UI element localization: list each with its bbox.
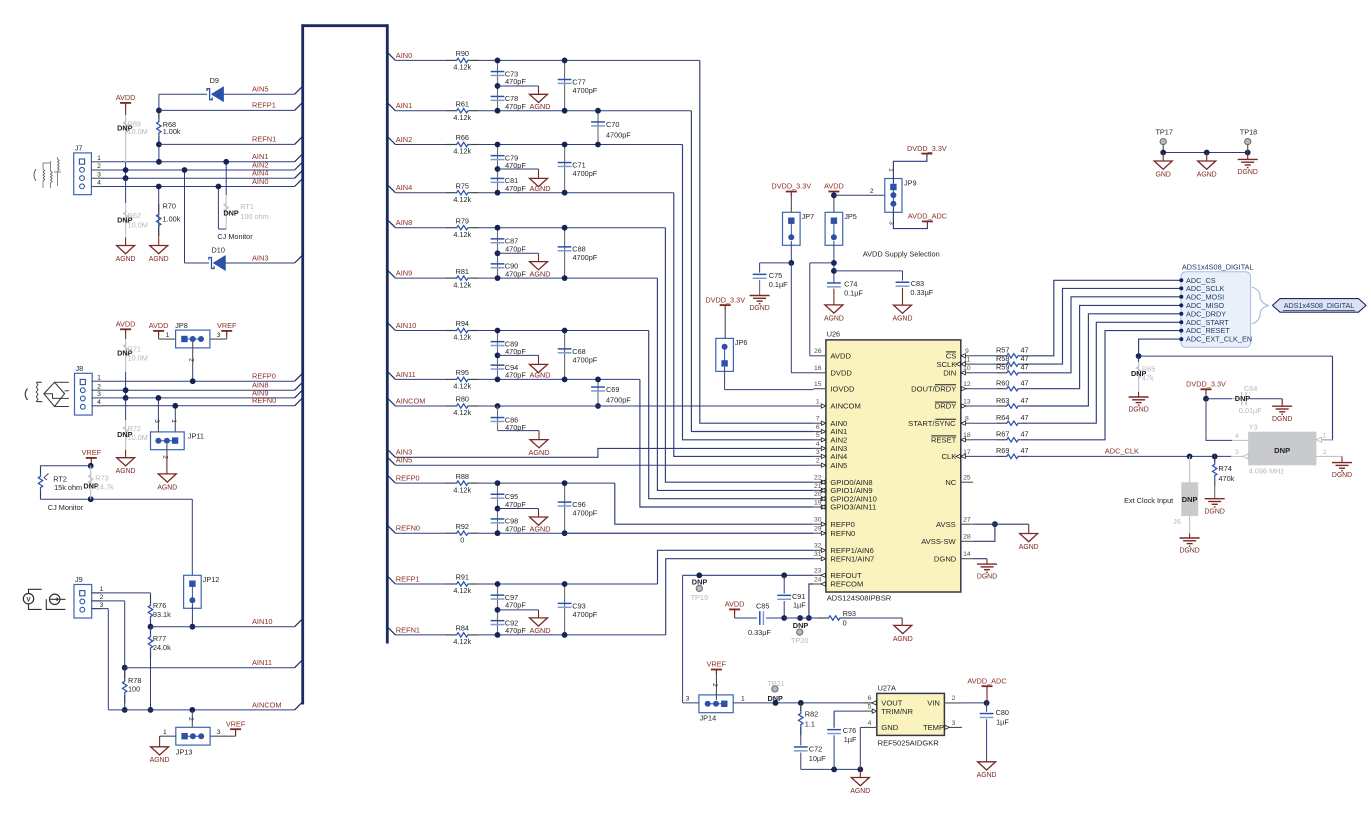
svg-text:3: 3 bbox=[100, 602, 104, 609]
svg-text:D10: D10 bbox=[212, 245, 225, 254]
svg-text:JP12: JP12 bbox=[203, 575, 220, 584]
svg-text:DGND: DGND bbox=[1179, 548, 1199, 555]
svg-text:24.0k: 24.0k bbox=[153, 643, 171, 652]
svg-text:4.12k: 4.12k bbox=[453, 147, 471, 156]
svg-text:22: 22 bbox=[814, 475, 822, 482]
svg-text:AVSS: AVSS bbox=[936, 520, 956, 529]
svg-text:DGND: DGND bbox=[1128, 407, 1148, 414]
svg-text:TRIM/NR: TRIM/NR bbox=[881, 707, 913, 716]
svg-text:R88: R88 bbox=[456, 472, 469, 481]
svg-text:470pF: 470pF bbox=[505, 500, 526, 509]
svg-text:470pF: 470pF bbox=[505, 77, 526, 86]
svg-text:AGND: AGND bbox=[893, 316, 913, 323]
svg-text:6: 6 bbox=[868, 695, 872, 702]
svg-text:1: 1 bbox=[816, 398, 820, 405]
svg-text:15k ohm: 15k ohm bbox=[54, 483, 82, 492]
svg-text:47: 47 bbox=[1021, 446, 1029, 455]
svg-text:R72: R72 bbox=[128, 424, 141, 433]
svg-text:C80: C80 bbox=[996, 708, 1009, 717]
svg-text:100 ohm: 100 ohm bbox=[240, 212, 268, 221]
svg-text:U26: U26 bbox=[827, 330, 840, 339]
svg-text:C85: C85 bbox=[756, 602, 769, 611]
svg-text:1.1: 1.1 bbox=[805, 720, 815, 729]
svg-text:AIN11: AIN11 bbox=[252, 658, 272, 667]
svg-text:4.12k: 4.12k bbox=[453, 230, 471, 239]
svg-text:TP18: TP18 bbox=[1240, 128, 1257, 137]
svg-text:REFN1/AIN7: REFN1/AIN7 bbox=[830, 554, 874, 563]
svg-text:AGND: AGND bbox=[529, 269, 550, 278]
svg-text:0.33µF: 0.33µF bbox=[748, 628, 771, 637]
svg-text:3: 3 bbox=[97, 391, 101, 398]
svg-text:C69: C69 bbox=[606, 385, 619, 394]
svg-text:AGND: AGND bbox=[150, 757, 170, 764]
svg-text:DGND: DGND bbox=[1272, 416, 1292, 423]
svg-text:30: 30 bbox=[814, 517, 822, 524]
svg-text:C70: C70 bbox=[606, 120, 619, 129]
svg-text:R59: R59 bbox=[996, 363, 1009, 372]
svg-text:DVDD: DVDD bbox=[830, 369, 852, 378]
svg-text:1.00k: 1.00k bbox=[163, 215, 181, 224]
svg-text:24: 24 bbox=[814, 576, 822, 583]
svg-text:R75: R75 bbox=[456, 181, 469, 190]
svg-text:DNP: DNP bbox=[793, 621, 809, 630]
svg-text:AGND: AGND bbox=[529, 525, 550, 534]
svg-text:2: 2 bbox=[711, 683, 718, 687]
svg-text:AIN10: AIN10 bbox=[396, 321, 417, 330]
svg-text:4.12k: 4.12k bbox=[453, 586, 471, 595]
svg-text:CJ Monitor: CJ Monitor bbox=[48, 503, 84, 512]
svg-text:R61: R61 bbox=[456, 99, 469, 108]
svg-text:AGND: AGND bbox=[1019, 544, 1039, 551]
svg-text:DGND: DGND bbox=[1205, 508, 1225, 515]
svg-text:16: 16 bbox=[814, 365, 822, 372]
svg-text:0: 0 bbox=[460, 535, 464, 544]
svg-text:R77: R77 bbox=[153, 634, 166, 643]
svg-text:14: 14 bbox=[963, 551, 971, 558]
svg-text:AGND: AGND bbox=[149, 256, 169, 263]
svg-text:R69: R69 bbox=[996, 446, 1009, 455]
svg-text:R67: R67 bbox=[996, 430, 1009, 439]
svg-text:C72: C72 bbox=[809, 745, 822, 754]
svg-text:470pF: 470pF bbox=[505, 371, 526, 380]
svg-text:RT1: RT1 bbox=[240, 202, 254, 211]
svg-text:2: 2 bbox=[100, 594, 104, 601]
svg-text:470pF: 470pF bbox=[505, 269, 526, 278]
svg-text:DGND: DGND bbox=[977, 574, 997, 581]
svg-text:100: 100 bbox=[128, 684, 140, 693]
svg-text:2: 2 bbox=[870, 188, 874, 195]
svg-text:3: 3 bbox=[686, 696, 690, 703]
svg-text:0: 0 bbox=[843, 619, 847, 628]
svg-text:1: 1 bbox=[97, 155, 101, 162]
svg-text:10.0M: 10.0M bbox=[128, 127, 148, 136]
svg-text:REFP0: REFP0 bbox=[396, 474, 420, 483]
svg-text:DVDD_3.3V: DVDD_3.3V bbox=[705, 295, 745, 304]
svg-text:AIN3: AIN3 bbox=[252, 253, 268, 262]
svg-text:1: 1 bbox=[163, 729, 167, 736]
svg-text:93.1k: 93.1k bbox=[153, 610, 171, 619]
svg-text:DVDD_3.3V: DVDD_3.3V bbox=[907, 144, 947, 153]
svg-text:4.12k: 4.12k bbox=[453, 280, 471, 289]
svg-text:JP11: JP11 bbox=[188, 432, 204, 441]
svg-text:AIN8: AIN8 bbox=[396, 218, 412, 227]
svg-text:R65: R65 bbox=[1142, 365, 1155, 374]
svg-text:4700pF: 4700pF bbox=[606, 395, 631, 404]
svg-text:4.12k: 4.12k bbox=[453, 333, 471, 342]
svg-text:AIN10: AIN10 bbox=[252, 617, 273, 626]
svg-text:R66: R66 bbox=[456, 133, 469, 142]
svg-text:GND: GND bbox=[1156, 171, 1171, 178]
svg-text:AVDD_ADC: AVDD_ADC bbox=[967, 676, 1006, 685]
svg-text:ADS1x4S08_DIGITAL: ADS1x4S08_DIGITAL bbox=[1182, 262, 1254, 271]
svg-text:4: 4 bbox=[97, 399, 101, 406]
svg-text:RESET: RESET bbox=[931, 436, 957, 445]
svg-text:R71: R71 bbox=[128, 344, 141, 353]
svg-text:SCLK: SCLK bbox=[936, 360, 956, 369]
svg-text:REFP0: REFP0 bbox=[830, 520, 854, 529]
svg-text:3: 3 bbox=[217, 332, 221, 339]
svg-text:JP8: JP8 bbox=[175, 321, 188, 330]
svg-text:47: 47 bbox=[1021, 379, 1029, 388]
svg-text:DGND: DGND bbox=[934, 554, 957, 563]
svg-text:47k: 47k bbox=[1142, 374, 1154, 383]
svg-text:4700pF: 4700pF bbox=[573, 253, 598, 262]
svg-text:R73: R73 bbox=[95, 474, 108, 483]
svg-text:R62: R62 bbox=[128, 211, 141, 220]
svg-text:26: 26 bbox=[814, 348, 822, 355]
svg-text:TP19: TP19 bbox=[691, 593, 708, 602]
svg-text:JP9: JP9 bbox=[904, 179, 917, 188]
svg-text:470pF: 470pF bbox=[505, 601, 526, 610]
svg-text:ADS1x4S08_DIGITAL: ADS1x4S08_DIGITAL bbox=[1284, 301, 1355, 310]
svg-text:DNP: DNP bbox=[767, 694, 783, 703]
svg-text:470k: 470k bbox=[1219, 474, 1235, 483]
svg-text:4.12k: 4.12k bbox=[453, 408, 471, 417]
svg-text:AIN4: AIN4 bbox=[830, 452, 847, 461]
svg-text:R94: R94 bbox=[456, 319, 469, 328]
svg-text:TEMP: TEMP bbox=[923, 723, 944, 732]
svg-text:4.12k: 4.12k bbox=[453, 195, 471, 204]
svg-text:470pF: 470pF bbox=[505, 626, 526, 635]
svg-text:AVDD: AVDD bbox=[116, 93, 136, 102]
svg-text:R74: R74 bbox=[1219, 464, 1232, 473]
svg-text:47: 47 bbox=[1021, 396, 1029, 405]
svg-text:AGND: AGND bbox=[157, 484, 177, 491]
svg-text:R58: R58 bbox=[996, 354, 1009, 363]
svg-text:C75: C75 bbox=[769, 271, 782, 280]
svg-text:7: 7 bbox=[816, 416, 820, 423]
svg-text:0.1µF: 0.1µF bbox=[769, 280, 788, 289]
svg-text:15: 15 bbox=[814, 381, 822, 388]
svg-text:TP21: TP21 bbox=[767, 679, 784, 688]
svg-text:AIN4: AIN4 bbox=[396, 183, 412, 192]
svg-text:AIN2: AIN2 bbox=[396, 135, 412, 144]
svg-text:1: 1 bbox=[170, 419, 177, 423]
svg-text:4.12k: 4.12k bbox=[453, 382, 471, 391]
svg-text:Ext Clock Input: Ext Clock Input bbox=[1124, 496, 1173, 505]
svg-text:AINCOM: AINCOM bbox=[396, 396, 426, 405]
svg-text:3: 3 bbox=[1235, 449, 1239, 456]
svg-text:470pF: 470pF bbox=[505, 244, 526, 253]
svg-text:DGND: DGND bbox=[1238, 169, 1258, 176]
svg-text:12: 12 bbox=[963, 381, 971, 388]
svg-text:R63: R63 bbox=[996, 396, 1009, 405]
svg-text:1: 1 bbox=[741, 696, 745, 703]
svg-text:2: 2 bbox=[97, 163, 101, 170]
svg-text:AIN0: AIN0 bbox=[252, 177, 268, 186]
svg-text:5: 5 bbox=[816, 432, 820, 439]
svg-text:JP7: JP7 bbox=[802, 212, 815, 221]
svg-text:VREF: VREF bbox=[82, 448, 102, 457]
svg-text:DRDY: DRDY bbox=[935, 402, 957, 411]
svg-text:27: 27 bbox=[963, 517, 971, 524]
svg-text:DNP: DNP bbox=[223, 208, 239, 217]
svg-text:AIN9: AIN9 bbox=[396, 269, 412, 278]
svg-text:AIN5: AIN5 bbox=[830, 461, 847, 470]
svg-text:AGND: AGND bbox=[824, 315, 844, 322]
svg-text:4.12k: 4.12k bbox=[453, 637, 471, 646]
svg-text:J8: J8 bbox=[76, 364, 84, 373]
svg-text:ADC_CLK: ADC_CLK bbox=[1105, 446, 1139, 455]
svg-text:AVDD_ADC: AVDD_ADC bbox=[908, 212, 947, 221]
svg-text:AGND: AGND bbox=[529, 102, 550, 111]
svg-text:DGND: DGND bbox=[749, 305, 769, 312]
svg-text:GND: GND bbox=[881, 723, 898, 732]
svg-text:29: 29 bbox=[814, 526, 822, 533]
svg-text:4700pF: 4700pF bbox=[573, 86, 598, 95]
svg-text:C84: C84 bbox=[1244, 384, 1257, 393]
svg-text:4.12k: 4.12k bbox=[453, 113, 471, 122]
svg-text:4700pF: 4700pF bbox=[573, 355, 598, 364]
svg-text:13: 13 bbox=[963, 398, 971, 405]
svg-text:AIN5: AIN5 bbox=[396, 456, 412, 465]
svg-text:DNP: DNP bbox=[1235, 394, 1251, 403]
svg-text:4700pF: 4700pF bbox=[573, 610, 598, 619]
svg-text:10.0M: 10.0M bbox=[128, 433, 148, 442]
svg-text:1: 1 bbox=[1323, 432, 1327, 439]
svg-text:AGND: AGND bbox=[893, 636, 913, 643]
svg-text:R95: R95 bbox=[456, 368, 469, 377]
svg-text:R76: R76 bbox=[153, 601, 166, 610]
svg-text:DNP: DNP bbox=[1274, 446, 1290, 455]
svg-text:1.00k: 1.00k bbox=[163, 127, 181, 136]
svg-text:470pF: 470pF bbox=[505, 525, 526, 534]
svg-text:C83: C83 bbox=[911, 279, 924, 288]
svg-text:DOUT/DRDY: DOUT/DRDY bbox=[911, 384, 956, 393]
svg-text:JP5: JP5 bbox=[844, 212, 857, 221]
svg-text:JP13: JP13 bbox=[176, 748, 193, 757]
svg-text:3: 3 bbox=[888, 221, 895, 225]
svg-text:AVDD: AVDD bbox=[824, 182, 844, 191]
svg-text:TP17: TP17 bbox=[1155, 128, 1172, 137]
svg-text:28: 28 bbox=[963, 534, 971, 541]
svg-text:21: 21 bbox=[814, 483, 822, 490]
svg-text:J6: J6 bbox=[1173, 517, 1181, 526]
svg-text:REFN1: REFN1 bbox=[252, 135, 276, 144]
svg-text:31: 31 bbox=[814, 551, 822, 558]
svg-text:25: 25 bbox=[963, 475, 971, 482]
svg-text:AIN0: AIN0 bbox=[396, 51, 412, 60]
svg-text:VREF: VREF bbox=[226, 719, 246, 728]
svg-text:R91: R91 bbox=[456, 573, 469, 582]
svg-text:AINCOM: AINCOM bbox=[252, 700, 282, 709]
svg-text:1µF: 1µF bbox=[793, 601, 806, 610]
svg-text:32: 32 bbox=[814, 543, 822, 550]
svg-text:ADC_EXT_CLK_EN: ADC_EXT_CLK_EN bbox=[1186, 335, 1252, 344]
svg-text:R84: R84 bbox=[456, 624, 469, 633]
svg-text:3: 3 bbox=[952, 720, 956, 727]
svg-text:DNP: DNP bbox=[1182, 495, 1198, 504]
svg-text:14.7k: 14.7k bbox=[96, 483, 114, 492]
svg-text:AGND: AGND bbox=[529, 184, 550, 193]
svg-text:4.096 MHz: 4.096 MHz bbox=[1249, 466, 1285, 475]
svg-text:3: 3 bbox=[153, 419, 160, 423]
svg-text:C76: C76 bbox=[843, 726, 856, 735]
svg-text:JP6: JP6 bbox=[735, 338, 748, 347]
svg-text:CJ Monitor: CJ Monitor bbox=[217, 232, 253, 241]
svg-text:1µF: 1µF bbox=[844, 735, 857, 744]
svg-text:3: 3 bbox=[97, 171, 101, 178]
svg-text:1: 1 bbox=[100, 586, 104, 593]
svg-text:TP20: TP20 bbox=[791, 636, 808, 645]
svg-text:R93: R93 bbox=[843, 609, 856, 618]
svg-text:AIN1: AIN1 bbox=[396, 101, 412, 110]
svg-text:4.12k: 4.12k bbox=[453, 63, 471, 72]
svg-text:REFCOM: REFCOM bbox=[830, 580, 863, 589]
svg-text:AGND: AGND bbox=[528, 448, 549, 457]
svg-text:20: 20 bbox=[814, 491, 822, 498]
svg-text:2: 2 bbox=[187, 358, 194, 362]
svg-text:AIN5: AIN5 bbox=[252, 85, 268, 94]
svg-text:U27A: U27A bbox=[878, 684, 896, 693]
svg-text:47: 47 bbox=[1021, 413, 1029, 422]
svg-text:2: 2 bbox=[97, 383, 101, 390]
svg-text:0.33µF: 0.33µF bbox=[910, 288, 933, 297]
svg-text:REFP1: REFP1 bbox=[252, 101, 276, 110]
svg-text:DGND: DGND bbox=[1332, 472, 1352, 479]
svg-text:R64: R64 bbox=[996, 413, 1009, 422]
svg-text:47: 47 bbox=[1021, 430, 1029, 439]
svg-text:J9: J9 bbox=[75, 575, 83, 584]
svg-text:1: 1 bbox=[166, 332, 170, 339]
svg-text:JP14: JP14 bbox=[700, 714, 717, 723]
svg-text:AGND: AGND bbox=[529, 371, 550, 380]
svg-text:D9: D9 bbox=[210, 76, 219, 85]
svg-text:VREF: VREF bbox=[217, 321, 237, 330]
svg-text:AGND: AGND bbox=[116, 256, 136, 263]
svg-text:2: 2 bbox=[1323, 449, 1327, 456]
svg-text:AGND: AGND bbox=[1197, 171, 1217, 178]
svg-text:REFOUT: REFOUT bbox=[830, 571, 862, 580]
svg-text:AGND: AGND bbox=[850, 788, 870, 795]
svg-text:REFN0: REFN0 bbox=[396, 524, 420, 533]
svg-text:AVDD: AVDD bbox=[116, 320, 136, 329]
svg-text:START/SYNC: START/SYNC bbox=[908, 419, 956, 428]
svg-text:23: 23 bbox=[814, 568, 822, 575]
svg-text:GPIO3/AIN11: GPIO3/AIN11 bbox=[830, 503, 876, 512]
svg-text:DIN: DIN bbox=[943, 369, 956, 378]
svg-text:AGND: AGND bbox=[529, 626, 550, 635]
svg-text:2: 2 bbox=[816, 458, 820, 465]
svg-text:470pF: 470pF bbox=[505, 102, 526, 111]
svg-text:19: 19 bbox=[814, 499, 822, 506]
svg-text:4: 4 bbox=[97, 180, 101, 187]
svg-text:R92: R92 bbox=[456, 522, 469, 531]
svg-text:AVDD: AVDD bbox=[149, 321, 169, 330]
svg-text:J7: J7 bbox=[75, 143, 83, 152]
svg-text:IOVDD: IOVDD bbox=[830, 384, 855, 393]
svg-text:AIN11: AIN11 bbox=[396, 370, 416, 379]
svg-text:R80: R80 bbox=[456, 395, 469, 404]
svg-text:DVDD_3.3V: DVDD_3.3V bbox=[1186, 380, 1226, 389]
svg-text:10µF: 10µF bbox=[809, 754, 826, 763]
svg-text:R90: R90 bbox=[456, 49, 469, 58]
svg-text:Y3: Y3 bbox=[1249, 423, 1258, 432]
svg-text:0.01µF: 0.01µF bbox=[1239, 406, 1262, 415]
svg-text:R79: R79 bbox=[456, 216, 469, 225]
svg-text:1µF: 1µF bbox=[996, 717, 1009, 726]
svg-text:AVDD: AVDD bbox=[830, 352, 851, 361]
svg-text:0.1µF: 0.1µF bbox=[844, 289, 863, 298]
svg-text:2: 2 bbox=[162, 455, 169, 459]
svg-text:4: 4 bbox=[868, 720, 872, 727]
svg-text:2: 2 bbox=[952, 695, 956, 702]
svg-text:DVDD_3.3V: DVDD_3.3V bbox=[771, 182, 811, 191]
svg-text:4700pF: 4700pF bbox=[606, 130, 631, 139]
svg-text:REF5025AIDGKR: REF5025AIDGKR bbox=[878, 738, 940, 747]
svg-text:ADS124S08IPBSR: ADS124S08IPBSR bbox=[827, 593, 892, 602]
svg-text:AVSS-SW: AVSS-SW bbox=[921, 537, 956, 546]
svg-text:R70: R70 bbox=[163, 201, 176, 210]
svg-text:R82: R82 bbox=[805, 710, 818, 719]
svg-text:47: 47 bbox=[1021, 354, 1029, 363]
svg-text:R60: R60 bbox=[996, 379, 1009, 388]
svg-text:10.0M: 10.0M bbox=[128, 353, 148, 362]
svg-text:AINCOM: AINCOM bbox=[830, 402, 860, 411]
svg-text:CLK: CLK bbox=[942, 452, 957, 461]
svg-text:5: 5 bbox=[868, 704, 872, 711]
svg-text:47: 47 bbox=[1021, 363, 1029, 372]
svg-text:470pF: 470pF bbox=[505, 184, 526, 193]
svg-text:REFN1: REFN1 bbox=[396, 625, 420, 634]
svg-text:4700pF: 4700pF bbox=[573, 508, 598, 517]
svg-text:REFN0: REFN0 bbox=[830, 529, 855, 538]
svg-text:VIN: VIN bbox=[927, 699, 940, 708]
svg-text:R81: R81 bbox=[456, 267, 469, 276]
svg-text:1: 1 bbox=[97, 374, 101, 381]
svg-text:REFP1: REFP1 bbox=[396, 574, 420, 583]
svg-text:AGND: AGND bbox=[116, 468, 136, 475]
svg-text:AVDD: AVDD bbox=[725, 600, 745, 609]
svg-text:AGND: AGND bbox=[977, 772, 997, 779]
svg-text:VREF: VREF bbox=[707, 660, 727, 669]
svg-text:1: 1 bbox=[888, 168, 895, 172]
svg-text:4.12k: 4.12k bbox=[453, 485, 471, 494]
svg-text:4700pF: 4700pF bbox=[573, 169, 598, 178]
svg-text:6: 6 bbox=[816, 424, 820, 431]
svg-text:2: 2 bbox=[187, 717, 194, 721]
svg-text:4: 4 bbox=[1235, 433, 1239, 440]
svg-text:REFN0: REFN0 bbox=[252, 396, 276, 405]
svg-text:4: 4 bbox=[816, 441, 820, 448]
svg-text:NC: NC bbox=[945, 478, 956, 487]
svg-text:C74: C74 bbox=[844, 280, 857, 289]
svg-text:10.0M: 10.0M bbox=[128, 220, 148, 229]
svg-text:3: 3 bbox=[816, 449, 820, 456]
svg-text:AVDD Supply Selection: AVDD Supply Selection bbox=[863, 250, 940, 259]
svg-text:REFP0: REFP0 bbox=[252, 372, 276, 381]
svg-text:3: 3 bbox=[217, 729, 221, 736]
